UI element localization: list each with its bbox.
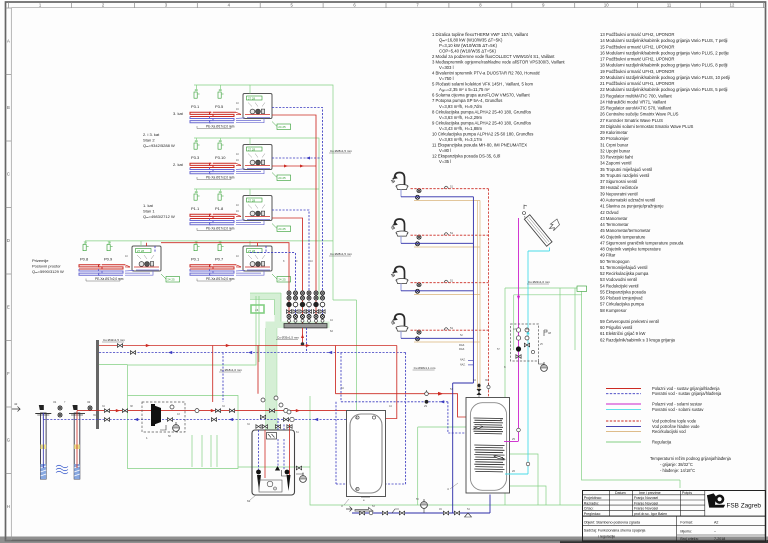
svg-text:42 Odvod: 42 Odvod <box>600 210 619 215</box>
svg-text:Temperaturni režim podnog grij: Temperaturni režim podnog grijanja/hlađe… <box>650 456 732 461</box>
svg-text:37 Sigurnosni ventil: 37 Sigurnosni ventil <box>600 179 637 184</box>
svg-text:39 Nepovratni ventil: 39 Nepovratni ventil <box>600 191 638 196</box>
svg-text:19 Podžbukni ormarić UFH3, UPO: 19 Podžbukni ormarić UFH3, UPONOR <box>600 69 674 74</box>
svg-text:Mjerilo:: Mjerilo: <box>680 530 692 534</box>
svg-text:PE-Xa Ø17x2,0 mm: PE-Xa Ø17x2,0 mm <box>95 277 124 281</box>
svg-text:10 Cirkulacijska pumpa ALPHA2: 10 Cirkulacijska pumpa ALPHA2 25-50 180,… <box>432 131 533 136</box>
svg-text:F: F <box>7 371 10 376</box>
svg-text:RAZ.: RAZ. <box>459 347 465 351</box>
svg-text:11: 11 <box>667 2 672 7</box>
svg-text:47 Sigurnosni graničnik temper: 47 Sigurnosni graničnik temperature posu… <box>600 240 684 245</box>
svg-text:FSB Zagreb: FSB Zagreb <box>727 503 762 510</box>
svg-text:Polazni vod - solarni sustav: Polazni vod - solarni sustav <box>652 401 703 406</box>
svg-text:26 Centralno sučelje Smatrix W: 26 Centralno sučelje Smatrix Wave PLUS <box>600 112 679 117</box>
svg-text:62: 62 <box>247 499 251 503</box>
svg-text:Franjo Novosel: Franjo Novosel <box>634 496 658 500</box>
svg-text:56 Pločasti izmjenjivač: 56 Pločasti izmjenjivač <box>600 296 644 301</box>
svg-text:32 Upojni bunar: 32 Upojni bunar <box>600 149 631 154</box>
svg-text:Franjo Novosel: Franjo Novosel <box>634 507 658 511</box>
svg-text:44 Termometar: 44 Termometar <box>600 222 629 227</box>
svg-text:PE-Xa Ø17x2,0 mm: PE-Xa Ø17x2,0 mm <box>206 227 235 231</box>
svg-text:Projektirao:: Projektirao: <box>584 496 602 500</box>
svg-text:31 Crpni bunar: 31 Crpni bunar <box>600 142 629 147</box>
svg-text:4 Bivalentni spremnik PTV-a DU: 4 Bivalentni spremnik PTV-a DUOSTAR R2 7… <box>432 71 541 76</box>
svg-text:Povratni vod - sustav grijanja: Povratni vod - sustav grijanja/hlađenja <box>652 391 722 396</box>
svg-text:38 Hvatač nečistoće: 38 Hvatač nečistoće <box>600 185 639 190</box>
svg-text:P0.8: P0.8 <box>80 257 89 262</box>
svg-text:prof.dr.sc. Igor Balen: prof.dr.sc. Igor Balen <box>634 512 667 516</box>
svg-text:40 Automatski odzračni ventil: 40 Automatski odzračni ventil <box>600 198 655 203</box>
svg-text:59 Četveroputni prekretni vent: 59 Četveroputni prekretni ventil <box>600 319 659 324</box>
svg-text:32: 32 <box>87 400 91 404</box>
svg-text:28 Digitalni solarni termostat: 28 Digitalni solarni termostat Smatrix W… <box>600 124 694 129</box>
svg-text:21 Podžbukni ormarić UFH1, UPO: 21 Podžbukni ormarić UFH1, UPONOR <box>600 81 674 86</box>
svg-text:Stan 1: Stan 1 <box>143 209 155 214</box>
svg-text:46 Osjetnik temperature: 46 Osjetnik temperature <box>600 234 646 239</box>
svg-text:24 Hidraulički modul VR71, Vai: 24 Hidraulički modul VR71, Vaillant <box>600 99 667 104</box>
svg-text:A: A <box>7 39 10 44</box>
svg-text:Cu Ø28x1,5 mm: Cu Ø28x1,5 mm <box>330 252 352 256</box>
svg-text:9 Cirkulacijska pumpa ALPHA2 2: 9 Cirkulacijska pumpa ALPHA2 25-40 180, … <box>432 120 531 125</box>
svg-text:23 Regulator multiMATIC 700, V: 23 Regulator multiMATIC 700, Vaillant <box>600 93 672 98</box>
svg-text:36 Troputni razdjelni ventil: 36 Troputni razdjelni ventil <box>600 173 649 178</box>
svg-text:10: 10 <box>604 2 609 7</box>
svg-text:P0.7: P0.7 <box>215 257 224 262</box>
svg-text:P3.1: P3.1 <box>191 104 200 109</box>
svg-text:V=3,43 m³/h, H=1,88m: V=3,43 m³/h, H=1,88m <box>439 126 482 131</box>
svg-text:62 Razdjelnik/sabirnik s 3 kru: 62 Razdjelnik/sabirnik s 3 kruga grijanj… <box>600 337 676 342</box>
svg-text:Qₘ=5990/3129 W: Qₘ=5990/3129 W <box>32 269 64 274</box>
svg-text:29 Kalorimetar: 29 Kalorimetar <box>600 130 628 135</box>
svg-text:22 Modularni razdjelnik/sabirn: 22 Modularni razdjelnik/sabirnik podnog … <box>600 87 728 92</box>
svg-text:Qₘ=4983/2712 W: Qₘ=4983/2712 W <box>143 214 175 219</box>
svg-text:Vod potrošne tople vode: Vod potrošne tople vode <box>652 418 697 423</box>
svg-text:Poslovni prostor: Poslovni prostor <box>32 264 61 269</box>
svg-text:57 Cirkulacijska pumpa: 57 Cirkulacijska pumpa <box>600 302 645 307</box>
svg-text:Qₘ=9342/5288 W: Qₘ=9342/5288 W <box>143 143 175 148</box>
svg-text:51 Termomiješajući ventil: 51 Termomiješajući ventil <box>600 265 647 270</box>
svg-text:52 Recirkulacijska pumpa: 52 Recirkulacijska pumpa <box>600 271 649 276</box>
svg-text:12 Ekspanzijska posuda DS-35,: 12 Ekspanzijska posuda DS-35, 6,8l <box>432 153 500 158</box>
svg-text:RAZ.: RAZ. <box>459 343 465 347</box>
svg-text:Crtao:: Crtao: <box>584 507 594 511</box>
svg-text:48 Osjetnik vanjske temperatur: 48 Osjetnik vanjske temperature <box>600 247 662 252</box>
svg-text:Franjo Novosel: Franjo Novosel <box>634 501 658 505</box>
svg-text:Broj crteža:: Broj crteža: <box>680 537 698 541</box>
svg-text:P1.1: P1.1 <box>191 206 200 211</box>
svg-text:H: H <box>7 504 10 509</box>
svg-text:Potpis: Potpis <box>682 491 692 495</box>
svg-text:V=750 l: V=750 l <box>439 76 454 81</box>
svg-text:V=303 l: V=303 l <box>439 65 454 70</box>
svg-text:B: B <box>7 105 10 110</box>
svg-text:25 Regulator auroMATIC 570, Va: 25 Regulator auroMATIC 570, Vaillant <box>600 106 672 111</box>
svg-text:P0.1: P0.1 <box>191 257 200 262</box>
svg-text:A2: A2 <box>714 521 718 525</box>
svg-text:Cu Ø35x1,5 mm: Cu Ø35x1,5 mm <box>277 336 299 340</box>
svg-text:V=3,93 m³/h, H=9,7dm: V=3,93 m³/h, H=9,7dm <box>439 104 482 109</box>
svg-text:61 Električni grijač 9 kW: 61 Električni grijač 9 kW <box>600 331 645 336</box>
svg-text:Aₐₚₛ=2,35 m² x 5=11,75 m²: Aₐₚₛ=2,35 m² x 5=11,75 m² <box>439 87 490 92</box>
svg-text:Pregledao:: Pregledao: <box>584 512 601 516</box>
svg-text:i regulacije: i regulacije <box>598 535 615 539</box>
svg-text:2. i 3. kat: 2. i 3. kat <box>143 132 160 137</box>
svg-text:5 Pločasti solarni kolektori V: 5 Pločasti solarni kolektori VFK 145H , … <box>432 82 533 87</box>
svg-text:P=3,10 kW (W10/W35 ΔT=5K): P=3,10 kW (W10/W35 ΔT=5K) <box>439 43 497 48</box>
svg-text:60 Prigušni ventil: 60 Prigušni ventil <box>600 325 632 330</box>
svg-text:Datum: Datum <box>615 491 626 495</box>
svg-text:2. kat: 2. kat <box>173 162 184 167</box>
svg-text:P0.9: P0.9 <box>104 257 113 262</box>
svg-text:- hlađenje: 14/18°C: - hlađenje: 14/18°C <box>660 468 695 473</box>
svg-text:Cu Ø28x1,5 mm: Cu Ø28x1,5 mm <box>330 149 352 153</box>
svg-text:Cu Ø22x1,0 mm: Cu Ø22x1,0 mm <box>528 280 550 284</box>
svg-text:V=80 l: V=80 l <box>439 148 451 153</box>
svg-text:58 Kompresor: 58 Kompresor <box>600 308 627 313</box>
svg-text:- grijanje: 38/32°C: - grijanje: 38/32°C <box>660 462 693 467</box>
svg-text:P3.10: P3.10 <box>215 155 226 160</box>
svg-text:51: 51 <box>450 279 454 283</box>
svg-text:7-2018: 7-2018 <box>714 537 725 541</box>
svg-text:Objekt: Stambeno-poslovna zgr: Objekt: Stambeno-poslovna zgrada <box>584 521 640 525</box>
svg-text:6 Solarna cijevna grupa auroFL: 6 Solarna cijevna grupa auroFLOW VMS70, … <box>432 93 531 98</box>
svg-text:49 Filtar: 49 Filtar <box>600 253 616 258</box>
svg-text:D: D <box>7 238 10 243</box>
svg-text:COP=5,40 (W10/W35 ΔT=5K): COP=5,40 (W10/W35 ΔT=5K) <box>439 49 497 54</box>
svg-text:11 Ekspanzijska posuda MH-80,: 11 Ekspanzijska posuda MH-80, IMI PNEUMA… <box>432 142 527 147</box>
svg-text:17 Podžbukni ormarić UFH2, UPO: 17 Podžbukni ormarić UFH2, UPONOR <box>600 57 674 62</box>
svg-text:–: – <box>714 530 716 534</box>
svg-text:12: 12 <box>730 2 735 7</box>
svg-text:18 Modularni razdjelnik/sabirn: 18 Modularni razdjelnik/sabirnik podnog … <box>600 63 728 68</box>
svg-text:P3.5: P3.5 <box>215 104 224 109</box>
svg-text:Format:: Format: <box>680 521 692 525</box>
svg-text:31: 31 <box>53 400 57 404</box>
svg-text:Stan 2: Stan 2 <box>143 138 155 143</box>
svg-text:3 Međuspremnik ogrjevne/rashla: 3 Međuspremnik ogrjevne/rashladne vode a… <box>432 60 565 65</box>
svg-text:PE-Xa Ø17x2,0 mm: PE-Xa Ø17x2,0 mm <box>206 125 235 129</box>
svg-text:34 Zaporni ventil: 34 Zaporni ventil <box>600 161 631 166</box>
svg-text:Povratni vod - solarni sustav: Povratni vod - solarni sustav <box>652 407 704 412</box>
svg-text:33 Revizijski šaht: 33 Revizijski šaht <box>600 155 634 160</box>
svg-text:NAZ.: NAZ. <box>460 359 466 362</box>
svg-text:P1.8: P1.8 <box>215 206 224 211</box>
svg-text:V=35 l: V=35 l <box>439 159 451 164</box>
svg-text:24: 24 <box>255 308 259 312</box>
svg-text:20 Modularni razdjelnik/sabirn: 20 Modularni razdjelnik/sabirnik podnog … <box>600 75 730 80</box>
svg-text:1 Dizalica topline flexoTHERM: 1 Dizalica topline flexoTHERM VWF 157/4,… <box>432 32 529 37</box>
svg-text:2 Modul za podzemne vode fluoC: 2 Modul za podzemne vode fluoCOLLECT VWW… <box>432 54 555 59</box>
svg-text:Razradio:: Razradio: <box>584 501 599 505</box>
svg-text:Qₘ=16,80 kW (W10/W35 ΔT=5K): Qₘ=16,80 kW (W10/W35 ΔT=5K) <box>439 38 503 43</box>
svg-text:C: C <box>7 172 10 177</box>
svg-text:Regulacija: Regulacija <box>652 439 672 444</box>
svg-text:P3.3: P3.3 <box>191 155 200 160</box>
svg-text:Recirkulacijski vod: Recirkulacijski vod <box>652 429 686 434</box>
svg-text:E: E <box>7 305 10 310</box>
svg-text:V=3,63 m³/h, H=2,29m: V=3,63 m³/h, H=2,29m <box>439 115 482 120</box>
svg-text:Ime i prezime: Ime i prezime <box>639 491 661 495</box>
svg-text:41 Slavina za punjenje/pražnje: 41 Slavina za punjenje/pražnjenje <box>600 204 664 209</box>
svg-text:45 Manometar/termometar: 45 Manometar/termometar <box>600 228 651 233</box>
svg-text:Prizemlje: Prizemlje <box>32 258 49 263</box>
svg-text:53 Vodovodni ventil: 53 Vodovodni ventil <box>600 277 637 282</box>
svg-text:1. kat: 1. kat <box>143 203 154 208</box>
svg-text:42: 42 <box>14 402 18 406</box>
svg-text:16 Modularni razdjelnik/sabirn: 16 Modularni razdjelnik/sabirnik podnog … <box>600 50 730 55</box>
svg-text:27 Kontroler Smatrix Wave PLUS: 27 Kontroler Smatrix Wave PLUS <box>600 118 663 123</box>
svg-text:PE-Xa Ø17x2,0 mm: PE-Xa Ø17x2,0 mm <box>206 176 235 180</box>
svg-text:Cu Ø42x1,5 mm: Cu Ø42x1,5 mm <box>103 338 125 342</box>
svg-text:54 Redukcijski ventil: 54 Redukcijski ventil <box>600 283 639 288</box>
svg-text:V=3,93 m³/h, H=3,17m: V=3,93 m³/h, H=3,17m <box>439 137 482 142</box>
svg-text:PE-Xa Ø17x2,0 mm: PE-Xa Ø17x2,0 mm <box>206 277 235 281</box>
svg-text:50 Termopogon: 50 Termopogon <box>600 259 630 264</box>
svg-text:30 Protokomjer: 30 Protokomjer <box>600 136 629 141</box>
svg-text:7 Potopna pumpa SP 5A-4, Grund: 7 Potopna pumpa SP 5A-4, Grundfos <box>432 98 502 103</box>
svg-text:51: 51 <box>450 231 454 235</box>
svg-text:NAZ.: NAZ. <box>460 364 466 367</box>
svg-text:Sadržaj: Funkcionalna shema sp: Sadržaj: Funkcionalna shema spajanja <box>584 529 646 533</box>
svg-text:G: G <box>7 438 10 443</box>
svg-text:15 Podžbukni ormarić UFH2, UPO: 15 Podžbukni ormarić UFH2, UPONOR <box>600 44 674 49</box>
svg-text:Cu Ø18x1,1 mm: Cu Ø18x1,1 mm <box>414 366 436 370</box>
svg-text:35 Troputni miješajući ventil: 35 Troputni miješajući ventil <box>600 167 652 172</box>
svg-text:13 Podžbukni ormarić UFH2, UPO: 13 Podžbukni ormarić UFH2, UPONOR <box>600 32 674 37</box>
svg-text:43 Manometar: 43 Manometar <box>600 216 628 221</box>
svg-text:3. kat: 3. kat <box>173 111 184 116</box>
svg-text:14 Modularni razdjelnik/sabirn: 14 Modularni razdjelnik/sabirnik podnog … <box>600 38 728 43</box>
svg-text:55 Ekspanzijska posuda: 55 Ekspanzijska posuda <box>600 290 646 295</box>
svg-text:8 Cirkulacijska pumpa ALPHA2 2: 8 Cirkulacijska pumpa ALPHA2 25-40 180, … <box>432 109 531 114</box>
svg-text:51: 51 <box>450 185 454 189</box>
svg-text:51: 51 <box>450 326 454 330</box>
